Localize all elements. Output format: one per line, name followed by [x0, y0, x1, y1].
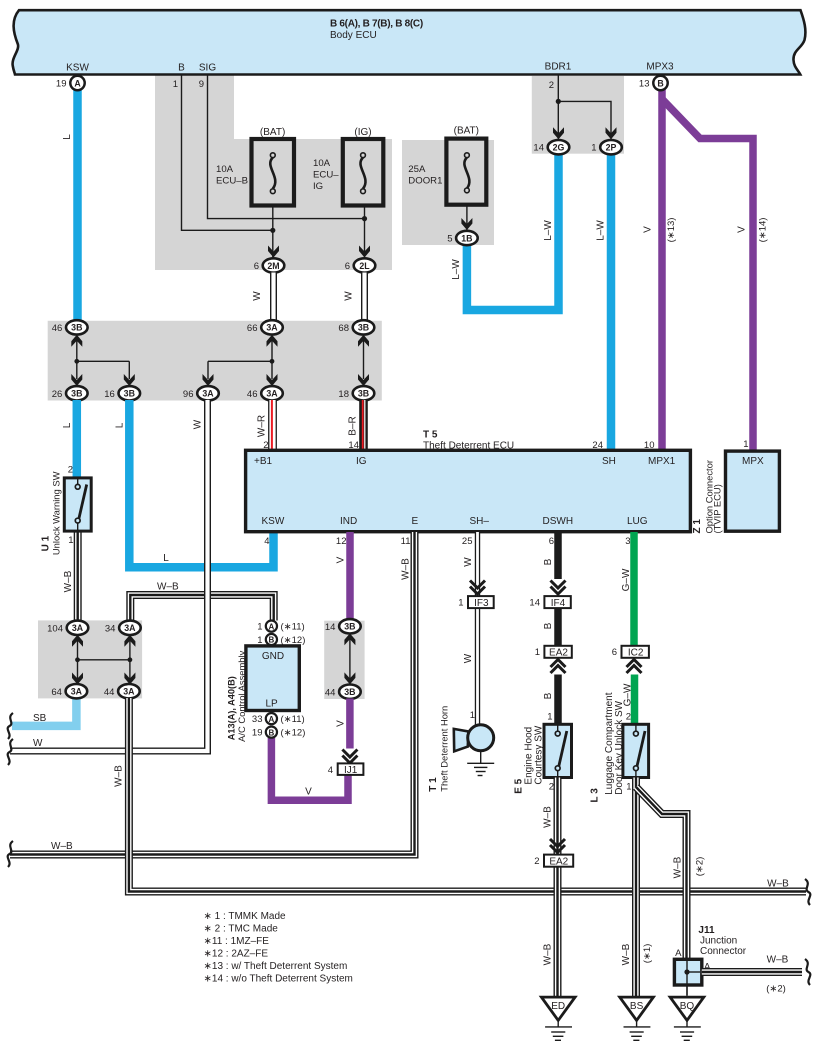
chevron below EA2 — [551, 660, 566, 674]
svg-text:A: A — [74, 78, 81, 88]
gray block BDR1 — [532, 76, 624, 154]
svg-text:B–R: B–R — [348, 416, 359, 435]
svg-text:W–B: W–B — [63, 570, 74, 592]
svg-text:4: 4 — [328, 765, 333, 776]
down arrow 64-3A — [72, 673, 83, 685]
svg-text:IND: IND — [340, 516, 357, 527]
fuse 10A ECU-B — [252, 139, 295, 206]
svg-text:L: L — [62, 422, 73, 428]
IC2 connector — [622, 646, 649, 658]
svg-text:(∗12): (∗12) — [281, 728, 306, 739]
svg-text:W–B: W–B — [157, 582, 179, 593]
svg-text:66: 66 — [247, 323, 258, 334]
svg-text:MPX: MPX — [742, 456, 764, 467]
oval 18 3B — [338, 386, 374, 400]
E5 engine hood courtesy SW — [544, 724, 572, 777]
down arrow 44-3A — [124, 673, 135, 685]
svg-text:(IG): (IG) — [354, 127, 371, 138]
svg-text:EA2: EA2 — [549, 856, 568, 867]
wire V MPX3 to MPX1 — [658, 89, 666, 452]
EA2 connector (2) — [544, 855, 573, 867]
svg-text:B: B — [543, 692, 554, 699]
svg-text:1: 1 — [257, 635, 262, 646]
svg-text:B: B — [657, 78, 663, 88]
svg-text:SH: SH — [602, 456, 616, 467]
svg-text:L: L — [163, 553, 169, 564]
svg-text:18: 18 — [338, 389, 349, 400]
svg-text:3B: 3B — [71, 323, 82, 333]
thin wire from band pin B (1) — [182, 75, 273, 230]
svg-text:SH–: SH– — [470, 516, 490, 527]
svg-text:ECU–B: ECU–B — [216, 176, 248, 187]
svg-text:W–B: W–B — [767, 955, 789, 966]
svg-text:A: A — [269, 715, 275, 724]
svg-text:1: 1 — [535, 647, 540, 658]
svg-text:(∗2): (∗2) — [766, 984, 786, 995]
svg-text:V: V — [305, 787, 312, 798]
svg-text:(TVIP ECU): (TVIP ECU) — [712, 484, 723, 533]
svg-text:IG: IG — [356, 456, 367, 467]
svg-text:BS: BS — [630, 1001, 644, 1012]
svg-text:3A: 3A — [123, 687, 135, 697]
svg-text:Connector: Connector — [700, 946, 747, 957]
svg-text:ECU–: ECU– — [313, 170, 339, 181]
svg-text:B: B — [543, 558, 554, 565]
down arrow 96-3A — [203, 374, 214, 386]
svg-text:W: W — [344, 291, 355, 301]
svg-text:3A: 3A — [72, 623, 84, 633]
svg-text:2L: 2L — [359, 261, 370, 271]
svg-text:BQ: BQ — [680, 1001, 695, 1012]
svg-text:+B1: +B1 — [254, 456, 273, 467]
wire fuse DOOR1 to 1B — [466, 205, 468, 231]
svg-text:5: 5 — [447, 234, 452, 245]
wire W-R 46-3A to ECU +B1 — [267, 400, 276, 452]
svg-text:A: A — [269, 622, 275, 631]
svg-text:L: L — [115, 422, 126, 428]
oval 46 3B — [52, 320, 88, 334]
svg-text:34: 34 — [105, 623, 116, 634]
svg-text:W–B: W–B — [673, 856, 684, 878]
svg-text:∗13 : w/ Theft Deterrent Syste: ∗13 : w/ Theft Deterrent System — [204, 961, 348, 972]
wire V A/C pin B to IJ1 — [271, 738, 348, 800]
svg-text:3B: 3B — [71, 389, 82, 399]
svg-text:W–B: W–B — [543, 806, 554, 828]
svg-text:2M: 2M — [267, 261, 279, 271]
oval 68 3B — [338, 320, 374, 334]
svg-text:3B: 3B — [358, 323, 369, 333]
fuse 25A DOOR1 — [446, 139, 486, 205]
wire V branch to Z1 MPX — [662, 99, 753, 452]
svg-text:1: 1 — [547, 712, 552, 723]
svg-text:∗ 2 : TMC Made: ∗ 2 : TMC Made — [204, 924, 279, 935]
wire W-B J11 to right page edge — [702, 968, 802, 976]
oval 14 3B — [325, 619, 361, 633]
junction dot SIG wire — [362, 216, 367, 221]
svg-text:3B: 3B — [124, 389, 135, 399]
theft deterrent horn T1 — [454, 729, 469, 751]
svg-text:E: E — [412, 516, 419, 527]
svg-text:64: 64 — [51, 687, 62, 698]
wire SB 64-3A to page edge — [12, 698, 76, 726]
arrow into 2M — [268, 246, 279, 258]
wire W ECU SH- to horn — [475, 532, 480, 726]
svg-text:2: 2 — [534, 856, 539, 867]
svg-text:96: 96 — [183, 389, 194, 400]
svg-text:2: 2 — [549, 782, 554, 793]
svg-text:DOOR1: DOOR1 — [408, 176, 442, 187]
oval 2G — [533, 140, 569, 154]
svg-text:6: 6 — [549, 536, 554, 547]
svg-text:B: B — [543, 622, 554, 629]
svg-text:Courtesy SW: Courtesy SW — [534, 725, 545, 784]
svg-text:44: 44 — [104, 687, 115, 698]
wire W-B U1 pin1 to 104-3A — [74, 531, 82, 621]
oval 26 3B — [52, 386, 88, 400]
svg-text:W: W — [193, 419, 204, 429]
svg-text:MPX1: MPX1 — [648, 456, 676, 467]
svg-text:V: V — [643, 226, 654, 233]
up arrow 68-3B — [358, 335, 369, 347]
down arrow 18-3B — [358, 374, 369, 386]
oval 2M — [254, 258, 285, 272]
oval 34 3A — [105, 621, 141, 635]
svg-text:11: 11 — [401, 536, 411, 547]
svg-text:19: 19 — [56, 79, 67, 90]
svg-text:3A: 3A — [124, 623, 136, 633]
svg-text:L–W: L–W — [543, 220, 554, 241]
link 14-3B to 44-3B — [349, 638, 351, 680]
svg-text:3A: 3A — [202, 389, 214, 399]
svg-text:1B: 1B — [461, 233, 472, 243]
wire W 96-3A down and left to page edge — [10, 400, 208, 751]
svg-text:B 6(A), B 7(B), B 8(C): B 6(A), B 7(B), B 8(C) — [330, 19, 423, 30]
thin wire BDR1 pin 2 — [558, 75, 611, 140]
chevron below IC2 — [627, 660, 642, 674]
svg-text:1: 1 — [458, 598, 463, 609]
svg-text:W: W — [33, 738, 43, 749]
junction dot B wire — [270, 228, 275, 233]
svg-text:V: V — [336, 720, 347, 727]
wire W-B L3 pin 1 to BS ground — [632, 778, 640, 999]
wire G-W IC2 to L3 pin 2 — [631, 675, 639, 727]
svg-text:(∗12): (∗12) — [281, 635, 306, 646]
svg-text:IJ1: IJ1 — [344, 765, 358, 776]
svg-text:MPX3: MPX3 — [646, 62, 674, 73]
svg-text:1: 1 — [68, 535, 73, 546]
gray block 14/44 3B — [324, 621, 364, 699]
chevron into IF4 — [551, 581, 566, 595]
IF3 connector — [468, 596, 494, 608]
wire V ECU IND to 14-3B — [346, 532, 354, 621]
svg-text:4: 4 — [264, 536, 269, 547]
svg-text:J11: J11 — [698, 925, 715, 936]
oval 96 3A — [183, 386, 219, 400]
svg-text:(∗11): (∗11) — [281, 622, 305, 633]
up arrow 66-3A — [267, 335, 278, 347]
wire L-W 2P to ECU SH — [607, 152, 616, 452]
svg-text:16: 16 — [104, 389, 115, 400]
horn ground — [480, 751, 482, 764]
svg-text:A: A — [675, 948, 682, 959]
svg-text:26: 26 — [52, 389, 63, 400]
ED ground triangle — [541, 997, 575, 1020]
oval 44 3A — [104, 684, 140, 698]
svg-text:6: 6 — [345, 261, 350, 272]
svg-text:14: 14 — [529, 598, 540, 609]
IJ1 junction box — [338, 763, 364, 775]
down arrow 46-3A — [267, 374, 278, 386]
page-break squiggle J11 right — [805, 959, 810, 985]
svg-text:KSW: KSW — [262, 516, 285, 527]
oval 1B — [447, 231, 477, 245]
svg-text:W–B: W–B — [51, 841, 73, 852]
svg-text:Unlock Warning SW: Unlock Warning SW — [50, 471, 61, 555]
svg-text:6: 6 — [612, 647, 617, 658]
svg-text:1: 1 — [470, 710, 475, 721]
svg-text:W: W — [463, 653, 474, 663]
EA2 connector — [544, 646, 571, 658]
link 66-3A to 96-3A/46-3A — [271, 340, 273, 379]
svg-text:2: 2 — [626, 712, 631, 723]
svg-text:25: 25 — [462, 536, 473, 547]
svg-text:1: 1 — [173, 79, 178, 90]
svg-text:IF4: IF4 — [551, 598, 566, 609]
svg-text:3A: 3A — [266, 323, 278, 333]
Z1 option connector box — [726, 451, 780, 531]
svg-text:∗14 : w/o Theft Deterrent Syst: ∗14 : w/o Theft Deterrent System — [204, 974, 353, 985]
svg-text:(∗14): (∗14) — [758, 218, 769, 243]
svg-text:L 3: L 3 — [590, 788, 601, 803]
wire B IF4 to EA2 — [554, 608, 562, 646]
svg-text:T 5: T 5 — [423, 430, 438, 441]
svg-text:25A: 25A — [408, 164, 426, 175]
svg-text:L: L — [62, 134, 73, 140]
svg-text:T 1: T 1 — [428, 777, 439, 792]
svg-text:BDR1: BDR1 — [545, 62, 572, 73]
gray junction block ECU-B/IG fuses — [155, 75, 392, 270]
page-break squiggle W-B left — [8, 841, 13, 867]
wire G-W ECU LUG to IC2 — [630, 532, 638, 646]
svg-text:14: 14 — [325, 622, 336, 633]
oval 2L — [345, 258, 376, 272]
wire from fuse ECU-IG down to 2L — [364, 206, 366, 259]
svg-text:13: 13 — [639, 79, 650, 90]
svg-text:10A: 10A — [313, 158, 331, 169]
wire L-W loop 1B to 2G — [467, 152, 559, 310]
svg-text:33: 33 — [252, 714, 263, 725]
page-break squiggle W-B right — [805, 879, 810, 905]
oval 2P — [591, 140, 622, 154]
svg-text:Junction: Junction — [700, 936, 737, 947]
svg-text:104: 104 — [47, 623, 63, 634]
svg-text:IG: IG — [313, 181, 323, 192]
block 104/34/64/44 internals — [77, 640, 79, 679]
svg-text:L–W: L–W — [451, 259, 462, 280]
oval 64 3A — [51, 684, 87, 698]
svg-text:2P: 2P — [606, 143, 617, 153]
svg-text:GND: GND — [262, 651, 284, 662]
svg-text:SIG: SIG — [199, 63, 216, 74]
svg-text:1: 1 — [591, 143, 596, 154]
arrow into 2L — [359, 246, 370, 258]
wire V 44-3B to IJ1 — [346, 699, 354, 749]
svg-text:L–W: L–W — [596, 220, 607, 241]
chevron into IF3 — [470, 581, 485, 595]
svg-text:46: 46 — [247, 389, 258, 400]
fuse 10A ECU-IG — [343, 139, 384, 206]
A/C pin circles top A/B — [266, 621, 277, 632]
down arrow 44-3B — [344, 672, 355, 684]
svg-text:IC2: IC2 — [628, 648, 644, 659]
oval 66 3A — [247, 320, 283, 334]
svg-text:1: 1 — [626, 782, 631, 793]
svg-text:Theft Deterrent Horn: Theft Deterrent Horn — [439, 706, 450, 792]
wire B EA2 to E5 pin 1 — [554, 675, 562, 727]
wire W 2L to 68-3B — [361, 273, 368, 322]
svg-text:6: 6 — [254, 261, 259, 272]
svg-text:46: 46 — [52, 323, 63, 334]
svg-text:V: V — [737, 226, 748, 233]
svg-text:3B: 3B — [358, 389, 369, 399]
svg-text:Door Key Unlock SW: Door Key Unlock SW — [614, 700, 625, 794]
svg-text:∗11 : 1MZ–FE: ∗11 : 1MZ–FE — [204, 936, 270, 947]
A/C control assembly box — [246, 646, 299, 711]
wire B ECU DSWH to E5 — [554, 532, 562, 579]
svg-text:KSW: KSW — [66, 63, 89, 74]
svg-text:W–B: W–B — [401, 558, 412, 580]
wire W-B 34-3A to A/C GND pin A — [130, 595, 273, 621]
svg-text:W–B: W–B — [621, 943, 632, 965]
wire J11 to BQ ground — [686, 985, 688, 998]
svg-text:B: B — [269, 728, 275, 737]
oval 104 3A — [47, 621, 88, 635]
svg-text:LUG: LUG — [627, 516, 648, 527]
oval 16 3B — [104, 386, 140, 400]
svg-text:A/C Control Assembly: A/C Control Assembly — [236, 650, 247, 741]
oval 46 3A — [247, 386, 283, 400]
svg-text:(∗13): (∗13) — [666, 218, 677, 243]
link 68-3B to 18-3B — [363, 340, 365, 379]
L3 luggage compartment door key unlock SW — [623, 724, 649, 777]
svg-text:W: W — [252, 291, 263, 301]
svg-text:DSWH: DSWH — [543, 516, 574, 527]
svg-text:(BAT): (BAT) — [260, 127, 285, 138]
svg-text:68: 68 — [338, 323, 349, 334]
svg-text:14: 14 — [533, 143, 544, 154]
svg-text:10A: 10A — [216, 164, 234, 175]
svg-text:3B: 3B — [344, 687, 355, 697]
arrow into 1B — [461, 218, 472, 230]
svg-text:19: 19 — [252, 728, 263, 739]
svg-text:W–R: W–R — [257, 415, 268, 437]
svg-text:(∗1): (∗1) — [642, 944, 653, 964]
down arrow 26-3B — [71, 374, 82, 386]
oval 44 3B — [325, 685, 361, 699]
wire W-B ECU E to page edge — [10, 532, 415, 855]
wire W-B L3 pin 1 branch to J11 — [636, 787, 687, 960]
svg-text:2: 2 — [68, 465, 73, 476]
wire from fuse ECU-B down to 2M — [272, 206, 274, 259]
pin 13 circle B — [653, 76, 667, 90]
wire W 2M to 66-3A — [270, 273, 277, 322]
thin wire from band pin SIG (9) — [208, 75, 365, 219]
Theft Deterrent ECU box — [246, 450, 691, 531]
chevron into EA2 (2) — [550, 839, 565, 853]
svg-text:1: 1 — [257, 622, 262, 633]
svg-text:G–W: G–W — [621, 568, 632, 591]
svg-text:(BAT): (BAT) — [454, 126, 479, 137]
svg-text:W–B: W–B — [543, 943, 554, 965]
wire L from KSW pin A to 46-3B — [73, 89, 82, 321]
svg-text:B: B — [178, 63, 185, 74]
svg-text:3B: 3B — [344, 622, 355, 632]
pin 19 circle A — [70, 76, 84, 90]
A/C pin circles bottom A/B — [266, 713, 277, 724]
wire W-B 44-3A down right to page edge — [129, 698, 806, 892]
BQ ground triangle — [670, 997, 704, 1020]
svg-text:1: 1 — [743, 439, 748, 450]
svg-text:2: 2 — [549, 80, 554, 91]
IF4 connector — [544, 596, 570, 608]
svg-text:44: 44 — [325, 687, 336, 698]
down arrow 16-3B — [124, 374, 135, 386]
chevron into IJ1 — [342, 750, 357, 764]
svg-text:3A: 3A — [266, 389, 278, 399]
link 46-3B to 26-3B/16-3B — [76, 340, 78, 379]
svg-text:∗ 1 : TMMK Made: ∗ 1 : TMMK Made — [204, 911, 287, 922]
up arrow 34-3A — [124, 635, 135, 647]
svg-text:Z 1: Z 1 — [692, 519, 703, 534]
svg-text:Body ECU: Body ECU — [330, 30, 377, 41]
svg-text:3A: 3A — [71, 687, 83, 697]
U1 unlock warning switch — [64, 478, 91, 531]
svg-text:3: 3 — [625, 536, 630, 547]
gray band 3A/3B junction row — [48, 321, 382, 401]
svg-text:W–B: W–B — [767, 879, 789, 890]
Body ECU band — [13, 10, 806, 74]
svg-text:ED: ED — [551, 1001, 565, 1012]
page-break squiggle W left — [8, 739, 13, 765]
svg-text:SB: SB — [33, 713, 47, 724]
svg-text:V: V — [336, 556, 347, 563]
svg-text:B: B — [269, 636, 275, 645]
svg-text:12: 12 — [336, 536, 347, 547]
up arrow 14-3B — [344, 633, 355, 645]
svg-text:EA2: EA2 — [549, 648, 568, 659]
up arrow 46-3B — [71, 335, 82, 347]
page-break squiggle SB left — [8, 713, 13, 739]
wire L 16-3B to ECU KSW pin 4 — [129, 400, 273, 567]
up arrow 104-3A — [72, 635, 83, 647]
arrow into 2P — [606, 127, 617, 139]
svg-text:9: 9 — [199, 79, 204, 90]
svg-text:W: W — [463, 557, 474, 567]
svg-text:LP: LP — [265, 699, 278, 710]
gray block DOOR1 fuse — [402, 140, 494, 245]
BS ground triangle — [620, 997, 654, 1020]
arrow into 2G — [553, 127, 564, 139]
wire B-R 18-3B to ECU IG — [363, 400, 365, 452]
wire L 26-3B to U1 pin 2 — [73, 400, 82, 480]
svg-text:W–B: W–B — [114, 765, 125, 787]
svg-text:2G: 2G — [553, 143, 565, 153]
svg-text:∗12 : 2AZ–FE: ∗12 : 2AZ–FE — [204, 949, 269, 960]
gray block 104/34/64/44 3A — [38, 620, 142, 698]
svg-text:IF3: IF3 — [474, 598, 489, 609]
svg-text:(∗11): (∗11) — [281, 714, 305, 725]
svg-text:(∗2): (∗2) — [695, 857, 706, 877]
